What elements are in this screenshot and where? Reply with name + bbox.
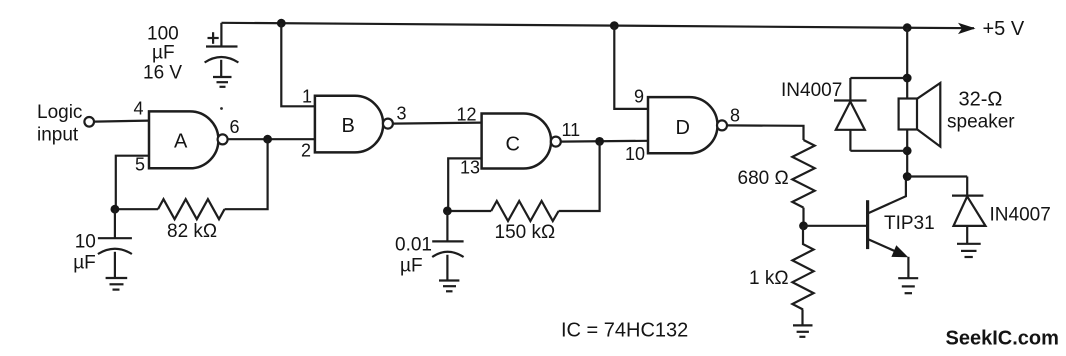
transistor Q1 collector <box>868 177 906 214</box>
transistor Q1 TIP31 base bar <box>866 200 869 249</box>
node speaker top junction <box>903 74 912 83</box>
ground under D2 <box>957 243 981 245</box>
capacitor C2 10uF lead <box>114 209 116 238</box>
wire resistor to junction <box>115 208 158 210</box>
svg-text:150 kΩ: 150 kΩ <box>495 222 556 243</box>
svg-text:speaker: speaker <box>947 112 1015 133</box>
capacitor C2 plates <box>98 237 132 239</box>
svg-text:3: 3 <box>397 104 407 124</box>
capacitor C3 plates <box>432 240 463 242</box>
speaker LS1 body <box>899 99 917 130</box>
diode D2 triangle <box>954 196 986 226</box>
ground under R4 <box>793 324 813 326</box>
svg-text:IN4007: IN4007 <box>990 205 1051 226</box>
ground under C3 <box>439 279 459 281</box>
diode D1 lower lead <box>849 130 851 151</box>
wire gate D output to 680 ohm <box>726 125 803 140</box>
diode D1 triangle <box>836 102 865 130</box>
node speaker bottom junction <box>903 146 912 155</box>
wire gate B output to gate C pin 12 <box>392 123 481 124</box>
capacitor C3 lower lead <box>446 255 448 281</box>
svg-text:C: C <box>506 134 520 156</box>
diode D1 IN4007 top wire <box>850 77 907 79</box>
capacitor C2 lower lead <box>114 252 116 278</box>
wire R4 to ground <box>801 310 803 326</box>
stray speck <box>220 107 223 110</box>
svg-text:Logic: Logic <box>37 102 82 123</box>
diode D1 IN4007 upper lead <box>849 78 851 101</box>
wire main vertical rail to speaker <box>906 28 908 99</box>
ground under C2 <box>106 277 128 279</box>
svg-text:12: 12 <box>457 104 477 124</box>
node rail junction above gate B <box>277 19 286 28</box>
wire speaker bottom segment <box>906 130 908 177</box>
wire resistor to junction <box>447 210 491 212</box>
wire emitter to ground <box>907 257 909 278</box>
svg-text:13: 13 <box>460 158 480 178</box>
svg-text:1 kΩ: 1 kΩ <box>749 268 789 289</box>
resistor R4 1k vertical zigzag <box>792 226 813 310</box>
svg-text:100: 100 <box>147 24 179 45</box>
wire R3 to base node <box>802 208 804 226</box>
svg-text:6: 6 <box>230 117 240 137</box>
svg-text:5: 5 <box>135 155 145 175</box>
ground under C1 <box>213 76 232 78</box>
diode D2 upper lead <box>966 177 968 196</box>
node base junction <box>799 221 808 230</box>
svg-text:0.01: 0.01 <box>395 235 432 256</box>
diode D1 cathode bar <box>834 99 867 101</box>
node rail junction above gate D <box>610 21 619 30</box>
svg-text:µF: µF <box>400 256 423 277</box>
NAND gate D <box>648 97 718 153</box>
svg-text:input: input <box>37 125 79 146</box>
NAND gate C <box>482 114 551 169</box>
diode D2 IN4007 top wire <box>907 175 967 177</box>
resistor R1 82k zigzag <box>158 199 225 219</box>
wire pin 1 from rail <box>281 23 315 106</box>
capacitor C1 100uF lead from rail <box>220 23 222 47</box>
svg-text:16 V: 16 V <box>143 63 182 84</box>
node collector junction <box>903 172 912 181</box>
speaker LS1 cone <box>917 83 940 147</box>
svg-text:11: 11 <box>562 120 581 140</box>
svg-text:TIP31: TIP31 <box>884 213 935 234</box>
svg-text:SeekIC.com: SeekIC.com <box>946 328 1059 350</box>
diode D1 bottom wire <box>850 150 907 152</box>
capacitor C3 0.01uF lead <box>446 211 448 242</box>
wire +5V rail <box>222 23 975 28</box>
resistor R3 680 ohm vertical zigzag <box>792 140 814 208</box>
svg-text:A: A <box>174 131 188 153</box>
logic input terminal <box>84 117 94 127</box>
wire gate A output to gate B pin 2 <box>227 138 315 140</box>
transistor Q1 emitter <box>868 239 898 253</box>
wire feedback gate C down/left <box>559 141 600 211</box>
wire pin 9 from rail <box>614 26 648 109</box>
capacitor C1 plus sign <box>208 37 219 39</box>
ground under emitter <box>898 277 918 279</box>
op-amp / NAND gate A <box>149 111 218 168</box>
NAND gate B <box>315 96 383 153</box>
node rail junction at speaker branch <box>903 23 912 32</box>
svg-text:IN4007: IN4007 <box>781 80 842 101</box>
node junction pin13/R2/C3 <box>443 207 452 216</box>
svg-text:10: 10 <box>625 144 645 164</box>
svg-text:4: 4 <box>134 98 144 118</box>
svg-text:82 kΩ: 82 kΩ <box>167 221 217 242</box>
node junction pin5/R1/C2 <box>111 205 120 214</box>
svg-text:µF: µF <box>152 43 175 64</box>
wire gate C output to gate D pin 10 <box>560 140 648 143</box>
svg-text:µF: µF <box>73 253 96 274</box>
svg-text:10: 10 <box>75 232 96 253</box>
wire feedback gate A down/left <box>225 139 268 209</box>
wire pin 13 L-shape <box>448 158 481 211</box>
diode D2 lower lead <box>966 226 968 244</box>
capacitor C1 lower lead <box>220 60 222 77</box>
svg-text:1: 1 <box>302 87 312 107</box>
resistor R2 150k zigzag <box>491 201 558 221</box>
wire input to pin 4 <box>94 121 149 122</box>
wire base node to transistor <box>804 225 867 227</box>
svg-text:IC = 74HC132: IC = 74HC132 <box>561 320 688 342</box>
svg-text:32-Ω: 32-Ω <box>959 89 1003 111</box>
power +5V arrow <box>958 23 976 34</box>
svg-text:8: 8 <box>730 105 740 125</box>
node gate A output junction <box>263 135 272 144</box>
node gate C output junction <box>595 137 604 146</box>
wire pin 5 L-shape <box>116 156 149 210</box>
svg-text:9: 9 <box>634 87 644 107</box>
svg-text:680 Ω: 680 Ω <box>738 168 789 189</box>
svg-text:2: 2 <box>301 141 311 161</box>
svg-text:B: B <box>342 115 355 137</box>
diode D2 cathode bar <box>952 195 983 197</box>
svg-text:D: D <box>676 117 690 139</box>
svg-text:+5 V: +5 V <box>983 18 1025 40</box>
capacitor C1 100uF plates <box>206 45 238 47</box>
